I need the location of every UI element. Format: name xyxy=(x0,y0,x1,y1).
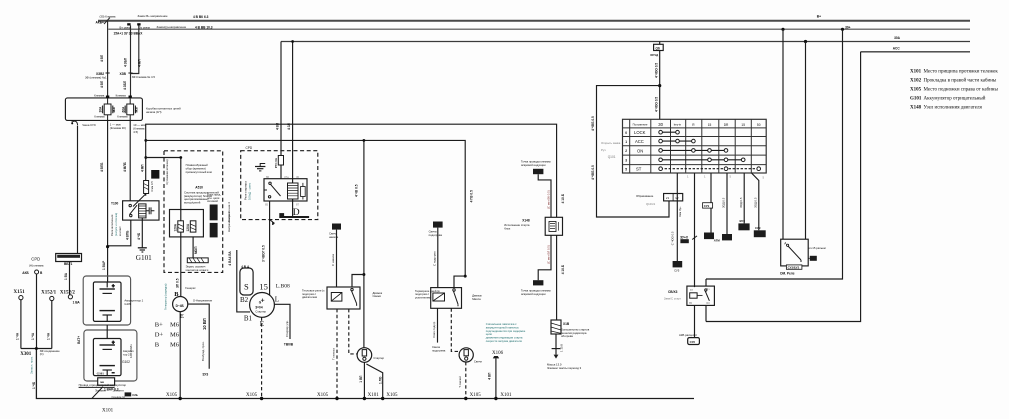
svg-text:накала: накала xyxy=(329,235,339,239)
svg-text:В+: В+ xyxy=(817,15,821,19)
outlined label on 15a wire xyxy=(703,203,713,208)
terminal B1 xyxy=(244,315,253,323)
relay DM bottom labels xyxy=(780,265,802,275)
svg-text:(Н) клемма: (Н) клемма xyxy=(29,264,44,268)
svg-text:D~4Б: D~4Б xyxy=(176,304,185,308)
svg-text:SТ: SТ xyxy=(636,167,642,172)
svg-text:4 МЛ: 4 МЛ xyxy=(138,59,142,67)
svg-text:Чаша СУЗ: Чаша СУЗ xyxy=(82,123,96,127)
node dot branch to A510 xyxy=(144,156,147,159)
svg-text:А510: А510 xyxy=(195,185,203,189)
chassis ground arrow xyxy=(552,349,561,359)
relay1 coil xyxy=(331,293,342,302)
svg-text:L.B08: L.B08 xyxy=(276,284,290,290)
svg-text:100уД - швес: 100уД - швес xyxy=(247,182,251,200)
A510 top note xyxy=(186,163,212,174)
connector C2B xyxy=(112,388,138,399)
svg-text:LOCK: LOCK xyxy=(634,130,646,135)
A510 dashed enclosure xyxy=(164,151,223,273)
A510 inner unit box xyxy=(170,210,204,237)
label above line2 xyxy=(120,25,213,29)
svg-text:АКБ+: АКБ+ xyxy=(96,21,105,25)
svg-text:ЗОД 0.5: ЗОД 0.5 xyxy=(722,197,726,208)
svg-text:4 ВЛ: 4 ВЛ xyxy=(100,54,104,62)
svg-text:Запасн. пров.: Запасн. пров. xyxy=(30,356,34,374)
svg-text:Направление 4: Направление 4 xyxy=(227,212,231,232)
battery G109 box xyxy=(93,282,121,321)
svg-text:M6: M6 xyxy=(170,322,180,329)
wire X152/1 down xyxy=(46,301,51,349)
wire label 4 MSB xyxy=(125,230,141,240)
svg-text:4 ВА: 4 ВА xyxy=(228,258,232,266)
node label ACC on line4 xyxy=(893,47,901,51)
connector (black) near A510 left edge xyxy=(151,170,159,179)
svg-text:4 ВЛ: 4 ВЛ xyxy=(100,80,104,88)
svg-text:1 ВАР: 1 ВАР xyxy=(102,260,106,270)
rotated label on battery feed wire xyxy=(77,260,106,344)
svg-text:Х148: Х148 xyxy=(522,218,530,222)
svg-text:ЗФ (клемма) №1: ЗФ (клемма) №1 xyxy=(85,76,107,80)
svg-text:X106: X106 xyxy=(492,351,504,356)
svg-text:Q6: Q6 xyxy=(656,46,660,50)
svg-text:1 ЛО: 1 ЛО xyxy=(378,376,382,384)
connector X3B2 on wire x107 xyxy=(85,72,110,79)
terminal B2 xyxy=(240,296,249,304)
ground designator G101 xyxy=(136,254,152,262)
svg-text:15: 15 xyxy=(708,123,712,127)
svg-text:X152/2: X152/2 xyxy=(60,291,76,296)
wire 15a column down xyxy=(710,173,712,233)
relay1 note right xyxy=(373,291,383,298)
svg-text:СУ5: СУ5 xyxy=(674,268,680,272)
wire x556 continues to mass element xyxy=(556,235,558,320)
svg-text:B2: B2 xyxy=(240,296,249,304)
relay2 dashed output to lamp2 xyxy=(451,308,459,351)
wire: line1 drop to fuse box xyxy=(107,21,109,98)
svg-text:Провод отрицательный аккумулят: Провод отрицательный аккумулятор xyxy=(79,383,127,387)
svg-text:3: 3 xyxy=(625,159,627,163)
svg-text:Стартер: Стартер xyxy=(373,356,384,360)
svg-text:Свеч подогр: Свеч подогр xyxy=(432,321,436,337)
X148 unit box xyxy=(545,217,562,235)
svg-text:Х102: Х102 xyxy=(910,79,922,84)
svg-text:87: 87 xyxy=(690,288,694,292)
klemma texts below fuses xyxy=(94,115,128,119)
svg-text:скорости запуска двигателя: скорости запуска двигателя xyxy=(486,339,523,343)
terminal B label xyxy=(174,291,179,298)
wire 50 column diagonal down xyxy=(752,173,759,230)
wire R column down to DM/X3 relay xyxy=(694,173,696,287)
wire L2 (to relay column taps) xyxy=(146,140,465,276)
starter solenoid housing S xyxy=(240,265,253,295)
svg-text:контакт: контакт xyxy=(118,226,122,236)
svg-text:(Клемма 30): (Клемма 30) xyxy=(110,126,126,130)
svg-text:3 ЧВОГ 0.5: 3 ЧВОГ 0.5 xyxy=(261,245,265,262)
svg-text:1 ВА: 1 ВА xyxy=(73,301,81,305)
connector end of 15a wire xyxy=(704,233,714,240)
wire line3 down to DM relay xyxy=(805,42,807,240)
wire label on starter feed xyxy=(261,245,265,262)
wire element2 down to shield bar xyxy=(193,237,198,258)
rotated note on A510 left inside xyxy=(165,159,169,185)
CPD relay output wire (terminal 15 of starter) xyxy=(269,201,271,295)
svg-text:15: 15 xyxy=(741,123,745,127)
svg-text:30А: 30А xyxy=(99,106,103,113)
wire from hook down left side xyxy=(77,126,79,254)
svg-text:Х101: Х101 xyxy=(910,70,922,75)
svg-text:50: 50 xyxy=(757,123,761,127)
svg-text:1 ВАР 6.3: 1 ВАР 6.3 xyxy=(104,387,119,391)
bus line 4 (ACC) xyxy=(861,51,970,53)
relay DM/X3 coil xyxy=(690,293,703,298)
wire from L terminal xyxy=(275,304,294,346)
lamp1 note xyxy=(373,356,384,360)
wire label (x130) xyxy=(124,57,128,67)
terminal S letter xyxy=(244,282,249,292)
ground symbol inside CPD xyxy=(255,164,265,171)
connector X152/1 xyxy=(41,291,57,301)
svg-text:ЗУЗ: ЗУЗ xyxy=(202,372,208,376)
solder joint squares on line2 taps xyxy=(127,23,140,25)
terminal E xyxy=(260,320,264,328)
legend entry X101 xyxy=(910,70,998,75)
relay coil in CPD xyxy=(288,183,299,199)
svg-text:15: 15 xyxy=(259,282,268,292)
switch contacts row ACC xyxy=(659,139,695,143)
svg-text:X105: X105 xyxy=(246,393,258,398)
svg-text:∨1: ∨1 xyxy=(666,196,670,200)
svg-text:подогрева: подогрева xyxy=(432,348,446,352)
svg-text:контактов штанги: контактов штанги xyxy=(186,268,209,272)
svg-text:ВУЗ: ВУЗ xyxy=(740,219,746,223)
svg-text:В+ связи: В+ связи xyxy=(120,26,132,30)
svg-text:key-in: key-in xyxy=(674,123,682,127)
relay DM box xyxy=(781,239,809,266)
svg-text:4 ЗБЛ: 4 ЗБЛ xyxy=(123,80,127,90)
svg-text:15А+1 ЗУ ЗЗ ВВАХ: 15А+1 ЗУ ЗЗ ВВАХ xyxy=(114,31,144,35)
svg-text:Зч: Зч xyxy=(707,287,711,291)
svg-text:1 ВЛ: 1 ВЛ xyxy=(359,375,363,383)
diagonal link element to relay xyxy=(133,194,146,207)
svg-text:АСС: АСС xyxy=(635,139,644,144)
svg-text:4 10.Б: 4 10.Б xyxy=(561,264,565,274)
fuse box description right xyxy=(146,106,181,114)
svg-text:МЗГ: МЗГ xyxy=(112,106,116,113)
battery G102 outer housing xyxy=(84,330,137,381)
relay2 solid output (to glow plug stub) xyxy=(432,308,446,352)
fuse box body xyxy=(65,98,142,121)
fuse F2 60A xyxy=(125,98,135,121)
label above line1: (30) Klemma xyxy=(100,14,209,19)
wire L1 long link (fusebox area to X148) xyxy=(146,124,557,217)
svg-text:(С мин ВЛ 0.5): (С мин ВЛ 0.5) xyxy=(547,245,551,264)
relay1 box xyxy=(327,287,360,309)
ground hook label xyxy=(82,123,96,127)
svg-text:МОП: МОП xyxy=(194,246,198,254)
svg-text:Место прищипа протяжки тележек: Место прищипа протяжки тележек xyxy=(924,70,999,75)
svg-text:обогрева: обогрева xyxy=(561,334,573,338)
svg-text:1 10.Б: 1 10.Б xyxy=(560,344,564,352)
wire to chassis ground xyxy=(556,334,564,352)
svg-text:DМ. Реле: DМ. Реле xyxy=(780,271,795,275)
coil output wire to D bar xyxy=(292,199,294,216)
note block right of lamp2 xyxy=(486,322,526,343)
svg-text:2: 2 xyxy=(625,149,627,153)
svg-text:СРD: СРD xyxy=(246,146,253,150)
lamp2 dashed wire to bus xyxy=(458,362,466,399)
svg-text:4 ЗЛ: 4 ЗЛ xyxy=(287,122,291,130)
X148 designator xyxy=(504,218,530,230)
svg-text:Открыть замка: Открыть замка xyxy=(601,141,621,145)
svg-text:Замок(к)+направление: Замок(к)+направление xyxy=(157,25,187,29)
svg-text:4 10.Б: 4 10.Б xyxy=(561,193,565,203)
node dot L2 start xyxy=(144,139,147,142)
branch into relay1 contact xyxy=(352,275,364,288)
wire line3 drop 2 into CPD xyxy=(291,40,294,183)
wire RUZ to X148 xyxy=(538,174,551,217)
svg-text:В: В xyxy=(40,271,43,275)
node dot on line2 (x783) xyxy=(781,28,784,31)
svg-text:С2Б: С2Б xyxy=(132,393,138,397)
shield bar note xyxy=(186,265,209,272)
svg-text:85: 85 xyxy=(265,202,269,206)
rotated note inside CPD xyxy=(243,181,251,200)
CPD dashed enclosure xyxy=(241,146,318,220)
svg-text:Стартер упр.: Стартер упр. xyxy=(285,320,289,337)
connector X152/2 xyxy=(60,291,81,305)
connector end of key-in wire xyxy=(673,261,683,272)
svg-text:Q101/1: Q101/1 xyxy=(646,202,656,206)
relay1 notes left xyxy=(302,288,325,299)
svg-text:Р: Р xyxy=(272,221,274,225)
svg-text:4 В ВВ 10.3: 4 В ВВ 10.3 xyxy=(195,26,213,30)
switch contacts row 3 xyxy=(659,158,745,162)
svg-text:СУЗ: СУЗ xyxy=(755,226,761,230)
D wire terminal label xyxy=(201,341,208,376)
connector above relay 1 xyxy=(329,224,341,240)
svg-text:4 ЧВ 0.5: 4 ЧВ 0.5 xyxy=(354,184,358,197)
svg-text:ЗФ Клемма № 4.5: ЗФ Клемма № 4.5 xyxy=(132,75,156,79)
svg-text:L: L xyxy=(275,295,279,303)
terminal circle AKB/B xyxy=(22,270,43,275)
svg-text:G109: G109 xyxy=(124,302,131,306)
wire DR column down xyxy=(722,173,727,234)
node label on line2 xyxy=(841,25,851,31)
connector RUZ bottom xyxy=(521,280,551,296)
svg-text:Генератор (зарядка): Генератор (зарядка) xyxy=(164,284,168,310)
switch contacts row LOCK xyxy=(659,130,680,134)
battery G102 box xyxy=(93,339,121,376)
relay1 dashed output to lamp xyxy=(349,309,357,354)
rotated note right of A510 xyxy=(227,202,232,259)
node dot branch to Q101/1 loop xyxy=(658,84,661,87)
relay T100 contact xyxy=(129,204,137,216)
rotated notes left of relay T100 xyxy=(110,213,122,236)
svg-text:1 ЧБ: 1 ЧБ xyxy=(32,381,36,389)
svg-text:ЗУ/ЧД: ЗУ/ЧД xyxy=(650,53,658,57)
svg-text:СРD: СРD xyxy=(31,257,40,262)
svg-text:Образование: Образование xyxy=(636,194,654,198)
svg-text:АКБ расцепит: АКБ расцепит xyxy=(679,333,698,337)
svg-text:4 ЧБ: 4 ЧБ xyxy=(137,232,141,240)
relay2 contact xyxy=(453,289,458,306)
switch contacts row ST xyxy=(659,167,761,171)
svg-text:X151: X151 xyxy=(14,290,26,295)
svg-text:10 ВЛ: 10 ВЛ xyxy=(202,318,207,330)
svg-text:X101: X101 xyxy=(102,409,114,414)
bold wire gauge near battery xyxy=(104,387,119,391)
bottom link line and diagonal to bus xyxy=(79,387,115,399)
wire label below X3B2 xyxy=(100,80,104,88)
battery G102 label xyxy=(122,344,134,364)
bus node dot (lamp1) xyxy=(363,393,380,400)
legend entry G101 xyxy=(910,97,986,102)
svg-text:87: 87 xyxy=(296,202,300,206)
D bar xyxy=(279,213,309,217)
svg-text:Т кюлоза: Т кюлоза xyxy=(332,348,336,360)
svg-text:4 В А: 4 В А xyxy=(241,265,250,269)
svg-text:ВАТ+: ВАТ+ xyxy=(77,336,81,344)
svg-text:искровой индукции: искровой индукции xyxy=(521,163,546,167)
fuse F2 labels xyxy=(121,106,138,113)
connector end of DR wire xyxy=(714,234,732,243)
bus line 2 (30) xyxy=(108,28,970,30)
svg-text:0: 0 xyxy=(625,131,627,135)
branch into relay2 contact xyxy=(454,276,465,288)
lamp2 note xyxy=(474,360,482,364)
bus node dot (X106) xyxy=(494,393,512,400)
svg-text:X101: X101 xyxy=(368,393,380,398)
wire label 4VL (x107) xyxy=(100,54,104,62)
bus node dot (diag branch) xyxy=(381,393,398,400)
svg-text:Клемма: Клемма xyxy=(116,93,127,97)
svg-text:ЗОД 0.5: ЗОД 0.5 xyxy=(753,197,757,208)
svg-text:СУЗ/БУЗ: СУЗ/БУЗ xyxy=(788,265,800,269)
wire key-in column down xyxy=(676,173,678,261)
wire label on x465 xyxy=(470,190,474,202)
wire labels on x364 xyxy=(354,184,363,382)
svg-text:+: + xyxy=(112,340,115,345)
svg-text:Клемма: Клемма xyxy=(94,115,105,119)
svg-text:B1: B1 xyxy=(244,315,253,323)
table row position digits xyxy=(625,131,627,172)
svg-text:Прокладка в правой части кабин: Прокладка в правой части кабины xyxy=(924,79,997,84)
node label B+ xyxy=(817,15,821,19)
svg-text:подогрева: подогрева xyxy=(429,233,443,237)
svg-text:4 ЧОО 0.5: 4 ЧОО 0.5 xyxy=(654,63,658,78)
svg-text:4 мм 0.5: 4 мм 0.5 xyxy=(150,181,154,192)
wire label mid xyxy=(31,332,35,340)
svg-text:1 ЧА: 1 ЧА xyxy=(46,332,50,340)
svg-text:кл.15 разъем: кл.15 разъем xyxy=(809,246,826,250)
relay box inside CPD xyxy=(264,179,307,201)
svg-text:4.5): 4.5) xyxy=(133,130,138,134)
svg-text:X105: X105 xyxy=(166,393,178,398)
svg-text:Х148: Х148 xyxy=(910,106,922,111)
svg-text:Зам Зу+: Зам Зу+ xyxy=(678,206,682,217)
wire: line2 drop B merging xyxy=(131,26,139,74)
wire label left of x180 wire xyxy=(175,278,179,288)
svg-text:60А: 60А xyxy=(121,106,125,113)
svg-text:30: 30 xyxy=(296,175,300,179)
svg-text:+: + xyxy=(112,284,115,289)
connector end of 15b wire xyxy=(738,219,749,230)
svg-text:4 МЛ: 4 МЛ xyxy=(141,164,145,172)
loop wire labels xyxy=(591,116,595,180)
svg-text:Место подножки справа от кабин: Место подножки справа от кабины xyxy=(924,88,999,93)
mass element X1B xyxy=(551,320,570,334)
wire from AKB circle down to X301 xyxy=(36,274,38,349)
interface box Q101/1 xyxy=(664,194,683,201)
ground hook at fuse box bottom left xyxy=(71,120,77,125)
battery inter label xyxy=(97,371,105,375)
wire labels on CPD feeds xyxy=(276,122,292,130)
label 1-MOV klemma 30 xyxy=(110,122,126,129)
wire label to bus xyxy=(32,381,36,389)
main wire gauge labels on x556 xyxy=(561,193,565,274)
battery G102 plates xyxy=(100,321,116,375)
legend entry X102 xyxy=(910,79,997,84)
teal note on ground wire xyxy=(30,356,34,374)
svg-text:Узел исполнения двигателя: Узел исполнения двигателя xyxy=(924,106,983,111)
svg-text:1 ЧА: 1 ЧА xyxy=(16,332,20,340)
svg-text:X152/1: X152/1 xyxy=(41,291,57,296)
svg-text:X101: X101 xyxy=(500,393,512,398)
relay DM/X3 pin marks xyxy=(689,287,711,305)
svg-text:G101: G101 xyxy=(910,97,922,102)
output connector SU6 xyxy=(679,333,699,345)
wire connector to relay1 xyxy=(331,230,336,287)
svg-text:–: – xyxy=(112,370,115,375)
relay contact in CPD xyxy=(264,182,281,198)
svg-text:ВБУ1: ВБУ1 xyxy=(64,262,72,266)
wire E to ground bus xyxy=(179,312,181,399)
svg-text:4 ЧОО 0.5: 4 ЧОО 0.5 xyxy=(654,97,658,112)
fuse F1 labels xyxy=(99,106,116,113)
diagonal branch to X101 xyxy=(366,364,382,399)
svg-text:4 ЗБЛ: 4 ЗБЛ xyxy=(124,57,128,67)
connector end of 50 wire xyxy=(754,226,766,237)
battery G109 outer housing xyxy=(83,276,130,325)
relay T100 coil xyxy=(139,204,146,218)
svg-text:M6: M6 xyxy=(170,342,180,349)
chassis ground note xyxy=(547,362,582,370)
svg-text:85: 85 xyxy=(689,301,693,305)
svg-text:Соедин.(з): Соедин.(з) xyxy=(112,395,126,399)
wire loop to Q101/1 xyxy=(597,86,670,217)
battery G109 plates xyxy=(100,282,116,321)
svg-text:4 ВЛБ: 4 ВЛБ xyxy=(100,162,104,172)
A510 designator and note xyxy=(184,185,219,204)
svg-text:промежуточный ком: промежуточный ком xyxy=(186,170,212,174)
svg-text:X105: X105 xyxy=(386,393,398,398)
feed wire labels xyxy=(654,63,658,112)
pin digits below table xyxy=(687,175,765,180)
terminal E label xyxy=(180,313,184,320)
svg-text:120А: 120А xyxy=(174,223,178,231)
Q101/1 labels xyxy=(636,194,656,206)
svg-text:АКБ: АКБ xyxy=(22,271,29,275)
svg-text:∨2: ∨2 xyxy=(675,196,679,200)
relay T100 coil wire to ground xyxy=(141,218,143,248)
svg-text:ЗЛ 0.5: ЗЛ 0.5 xyxy=(175,278,179,288)
relay DM/X3 contact xyxy=(705,289,710,301)
generator circle xyxy=(173,297,188,312)
A510 fuse element 2 xyxy=(186,221,196,232)
svg-text:1: 1 xyxy=(704,175,706,179)
label 10-MOV klemma 4.5 xyxy=(133,123,146,134)
wire X148 down to bottom connector xyxy=(538,235,551,280)
